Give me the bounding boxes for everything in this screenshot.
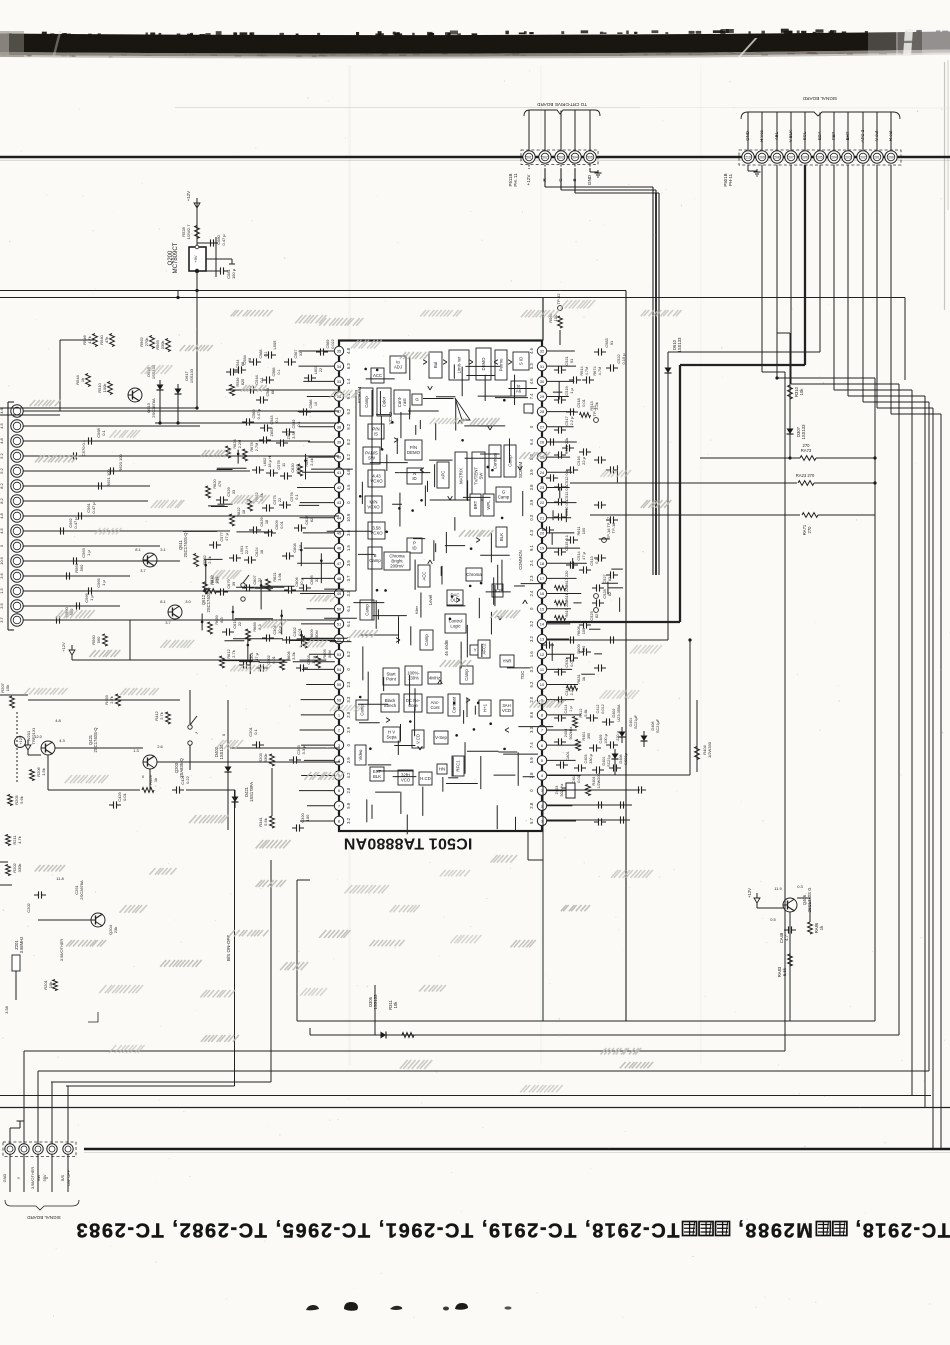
- svg-text:3.2: 3.2: [529, 620, 534, 626]
- svg-text:ACC: ACC: [373, 373, 382, 378]
- svg-text:3.58/OTHER: 3.58/OTHER: [59, 939, 64, 961]
- svg-text:1.4: 1.4: [346, 378, 351, 384]
- svg-text:5.2: 5.2: [0, 467, 4, 473]
- svg-text:R615 220: R615 220: [564, 600, 569, 618]
- svg-text:V BLK: V BLK: [788, 130, 793, 143]
- svg-text:68: 68: [271, 390, 275, 394]
- svg-text:4.7: 4.7: [784, 934, 789, 940]
- svg-text:PH. 11: PH. 11: [513, 173, 518, 187]
- svg-text:Camp: Camp: [369, 558, 381, 563]
- svg-text:204: 204: [831, 156, 837, 160]
- svg-text:4.3: 4.3: [59, 738, 65, 743]
- svg-text:203: 203: [845, 156, 851, 160]
- svg-text:C567: C567: [294, 349, 298, 358]
- svg-text:SIGNAL BOARD: SIGNAL BOARD: [802, 96, 837, 101]
- svg-text:5.6k: 5.6k: [584, 709, 588, 716]
- svg-text:100: 100: [581, 627, 586, 634]
- svg-text:0.3: 0.3: [529, 514, 534, 520]
- svg-text:54: 54: [337, 667, 342, 672]
- svg-text:3.9: 3.9: [529, 499, 534, 505]
- svg-text:6.4: 6.4: [529, 438, 534, 444]
- svg-text:3.3: 3.3: [529, 726, 534, 732]
- svg-text:1/2W200: 1/2W200: [597, 773, 601, 788]
- svg-text:53: 53: [337, 652, 342, 657]
- svg-text:3.7: 3.7: [165, 620, 171, 625]
- svg-text:UZ3.355A: UZ3.355A: [617, 704, 621, 722]
- svg-text:SCL: SCL: [802, 131, 807, 140]
- svg-text:5.6k: 5.6k: [782, 967, 787, 976]
- svg-text:2SC2878A: 2SC2878A: [79, 880, 84, 900]
- svg-text:22: 22: [540, 500, 545, 505]
- svg-text:rast: rast: [402, 398, 407, 406]
- svg-text:1.3: 1.3: [133, 748, 139, 753]
- svg-text:VCXO: VCXO: [367, 504, 380, 509]
- svg-text:3.9k: 3.9k: [277, 573, 282, 580]
- svg-text:R616 220: R616 220: [564, 585, 569, 603]
- svg-text:D408: D408: [651, 721, 655, 730]
- svg-text:10k: 10k: [799, 388, 804, 396]
- svg-text:2.2 μ: 2.2 μ: [569, 687, 574, 696]
- svg-text:+12V: +12V: [61, 642, 66, 652]
- svg-text:42: 42: [337, 485, 342, 490]
- svg-text:PH-11: PH-11: [728, 173, 733, 186]
- svg-text:DEMO: DEMO: [407, 450, 421, 455]
- svg-text:20: 20: [540, 531, 545, 536]
- svg-text:0.012: 0.012: [601, 704, 605, 714]
- svg-text:0.01: 0.01: [569, 659, 574, 667]
- svg-text:TP-18: TP-18: [611, 523, 616, 534]
- svg-text:18: 18: [264, 520, 269, 524]
- svg-text:6.1: 6.1: [346, 605, 351, 611]
- svg-text:52: 52: [337, 637, 342, 642]
- svg-text:47 μ: 47 μ: [581, 552, 586, 560]
- svg-text:V.CD: V.CD: [416, 734, 421, 744]
- svg-text:2.7k: 2.7k: [159, 712, 164, 720]
- svg-text:D401: D401: [602, 756, 606, 765]
- svg-text:C412: C412: [596, 704, 600, 713]
- svg-text:1.5: 1.5: [0, 587, 4, 593]
- svg-text:3.5: 3.5: [0, 602, 4, 608]
- svg-text:8.3: 8.3: [219, 617, 224, 622]
- svg-text:31: 31: [540, 364, 545, 369]
- svg-text:M2988,: M2988,: [737, 1219, 813, 1241]
- svg-text:VCD: VCD: [502, 708, 511, 713]
- svg-text:Strech: Strech: [384, 703, 397, 708]
- svg-text:502kHz: 502kHz: [569, 726, 573, 739]
- svg-text:2.2k: 2.2k: [207, 556, 212, 564]
- svg-text:8.2: 8.2: [346, 454, 351, 460]
- svg-text:29: 29: [540, 394, 545, 399]
- svg-text:16: 16: [540, 591, 545, 596]
- svg-text:Permu: Permu: [499, 358, 504, 371]
- svg-text:+12V: +12V: [526, 174, 531, 186]
- svg-text:VCO: VCO: [401, 777, 411, 782]
- svg-text:33: 33: [314, 578, 319, 582]
- svg-text:5.6k: 5.6k: [19, 796, 24, 804]
- svg-text:C544: C544: [236, 359, 240, 368]
- svg-text:C403: C403: [584, 754, 588, 763]
- svg-text:0.1: 0.1: [264, 351, 268, 356]
- svg-text:12: 12: [540, 652, 545, 657]
- svg-text:68: 68: [241, 362, 245, 366]
- svg-text:DEMO: DEMO: [481, 357, 486, 371]
- svg-text:560: 560: [79, 564, 84, 571]
- svg-text:Camp: Camp: [364, 396, 369, 408]
- svg-text:ABL: ABL: [774, 131, 779, 140]
- svg-text:8.1: 8.1: [160, 599, 166, 604]
- svg-text:BLK: BLK: [499, 533, 504, 541]
- svg-text:D402: D402: [612, 708, 616, 717]
- svg-text:↗: ↗: [194, 731, 199, 734]
- svg-text:22: 22: [237, 622, 242, 626]
- svg-text:10.9: 10.9: [346, 513, 351, 522]
- svg-text:82: 82: [607, 577, 612, 581]
- svg-text:SC21μ: SC21μ: [607, 755, 611, 767]
- svg-text:0.1: 0.1: [275, 417, 279, 422]
- svg-text:2403: 2403: [564, 729, 568, 737]
- svg-text:6.1: 6.1: [346, 620, 351, 626]
- svg-text:35: 35: [337, 349, 342, 354]
- svg-text:1 μ: 1 μ: [569, 706, 573, 711]
- svg-text:C409: C409: [599, 734, 603, 743]
- svg-text:46: 46: [337, 546, 342, 551]
- svg-text:8.1: 8.1: [135, 547, 141, 552]
- svg-text:C569: C569: [326, 339, 330, 348]
- svg-text:6.3: 6.3: [346, 363, 351, 369]
- svg-text:4.6: 4.6: [529, 378, 534, 384]
- svg-text:1k: 1k: [581, 677, 586, 681]
- svg-text:15: 15: [540, 606, 545, 611]
- svg-text:R617 220: R617 220: [564, 570, 569, 588]
- svg-text:1 μ: 1 μ: [89, 594, 94, 600]
- svg-text:50: 50: [337, 606, 342, 611]
- svg-text:RA23 270: RA23 270: [796, 473, 815, 478]
- svg-text:560: 560: [96, 636, 101, 643]
- svg-text:4.7M: 4.7M: [597, 367, 602, 376]
- svg-text:3.5: 3.5: [346, 560, 351, 566]
- svg-text:TC-2918,: TC-2918,: [854, 1219, 950, 1241]
- svg-text:0.47 μ: 0.47 μ: [91, 502, 96, 514]
- svg-text:11.9: 11.9: [774, 886, 782, 891]
- svg-text:C566: C566: [272, 367, 276, 376]
- svg-text:ACC: ACC: [422, 571, 427, 580]
- svg-text:SW: SW: [478, 472, 483, 480]
- svg-text:APC: APC: [441, 471, 446, 480]
- svg-text:11.8: 11.8: [56, 876, 64, 881]
- svg-text:2.8: 2.8: [346, 711, 351, 717]
- svg-text:18: 18: [241, 510, 246, 514]
- svg-text:330k: 330k: [263, 754, 268, 763]
- svg-text:TP-32: TP-32: [592, 405, 597, 417]
- svg-text:6.2: 6.2: [529, 681, 534, 687]
- svg-text:4.5: 4.5: [0, 422, 4, 428]
- svg-text:MATRIX: MATRIX: [459, 468, 464, 484]
- svg-text:1.5k: 1.5k: [41, 768, 46, 776]
- svg-text:22: 22: [319, 368, 323, 372]
- svg-text:1.5: 1.5: [346, 545, 351, 551]
- svg-text:3.9: 3.9: [529, 469, 534, 475]
- svg-text:Camp: Camp: [464, 669, 469, 681]
- svg-text:200mV: 200mV: [390, 563, 404, 568]
- svg-text:Kiler: Kiler: [414, 605, 419, 614]
- svg-text:3.2: 3.2: [529, 635, 534, 641]
- svg-text:5.2: 5.2: [346, 423, 351, 429]
- svg-text:Limit- ter: Limit- ter: [457, 356, 462, 373]
- svg-text:200: 200: [888, 156, 894, 160]
- svg-text:38: 38: [337, 424, 342, 429]
- svg-text:B/S: B/S: [60, 1174, 65, 1181]
- svg-text:208: 208: [774, 156, 780, 160]
- svg-text:C539: C539: [292, 419, 296, 428]
- svg-text:91: 91: [569, 359, 574, 363]
- svg-text:33: 33: [299, 352, 303, 356]
- svg-text:4.7M: 4.7M: [584, 367, 589, 376]
- svg-text:3.1: 3.1: [160, 547, 166, 552]
- svg-text:V-out: V-out: [874, 130, 879, 141]
- svg-text:1 μ: 1 μ: [101, 579, 106, 585]
- svg-text:C512 0.1: C512 0.1: [564, 470, 569, 486]
- svg-text:43: 43: [337, 500, 342, 505]
- svg-text:0.1: 0.1: [101, 429, 106, 435]
- svg-text:2.2 μ: 2.2 μ: [569, 417, 574, 426]
- svg-text:9.1: 9.1: [529, 545, 534, 551]
- svg-text:330k: 330k: [160, 341, 165, 350]
- svg-text:SW: SW: [36, 1175, 41, 1182]
- svg-text:Sepa: Sepa: [386, 734, 397, 739]
- svg-text:1SS133: 1SS133: [801, 424, 806, 440]
- svg-text:CA01: CA01: [566, 751, 570, 761]
- svg-text:ADJ: ADJ: [394, 364, 402, 369]
- svg-text:47 μ: 47 μ: [224, 533, 229, 541]
- svg-text:3.6: 3.6: [0, 572, 4, 578]
- svg-text:4.7k: 4.7k: [17, 836, 22, 844]
- svg-text:270: 270: [807, 526, 812, 534]
- svg-text:SC21μ: SC21μ: [624, 753, 628, 765]
- svg-text:22 H: 22 H: [244, 546, 249, 554]
- svg-text:100k: 100k: [102, 384, 107, 393]
- svg-text:18: 18: [540, 561, 545, 566]
- svg-text:GND: GND: [2, 1173, 7, 1182]
- svg-text:R539: R539: [236, 377, 240, 386]
- svg-text:R401: R401: [582, 731, 586, 740]
- svg-text:R620 100: R620 100: [118, 454, 123, 472]
- svg-text:1SS133: 1SS133: [189, 368, 194, 383]
- svg-text:3.2: 3.2: [346, 817, 351, 823]
- svg-text:11: 11: [281, 463, 286, 467]
- svg-text:R412: R412: [579, 708, 583, 717]
- svg-text:22 μ: 22 μ: [581, 457, 586, 465]
- svg-text:2.6: 2.6: [157, 744, 163, 749]
- svg-text:210: 210: [745, 156, 751, 160]
- svg-text:56: 56: [337, 697, 342, 702]
- svg-text:5.7: 5.7: [529, 817, 534, 823]
- svg-text:C202: C202: [26, 902, 31, 912]
- svg-text:8.2: 8.2: [0, 497, 4, 503]
- svg-text:C560: C560: [252, 409, 256, 418]
- svg-text:4.8: 4.8: [0, 437, 4, 443]
- svg-text:47: 47: [337, 561, 342, 566]
- svg-text:0.3: 0.3: [797, 884, 803, 889]
- svg-text:R404: R404: [592, 776, 596, 785]
- svg-text:330k: 330k: [17, 864, 22, 873]
- svg-text:0.1: 0.1: [253, 728, 258, 734]
- svg-text:2.0: 2.0: [529, 696, 534, 702]
- svg-text:270k: 270k: [144, 338, 149, 347]
- svg-text:100: 100: [581, 527, 586, 534]
- svg-text:C511 0.1: C511 0.1: [564, 485, 569, 501]
- svg-text:2SA835-Q: 2SA835-Q: [179, 757, 184, 777]
- svg-text:18 μ H: 18 μ H: [267, 456, 272, 468]
- svg-text:3.0: 3.0: [185, 599, 191, 604]
- svg-text:0.01: 0.01: [122, 792, 127, 801]
- svg-text:AFC-2: AFC-2: [860, 129, 865, 142]
- svg-text:1 μ: 1 μ: [86, 549, 91, 555]
- svg-text:10k: 10k: [393, 1001, 398, 1009]
- svg-text:3.3k: 3.3k: [291, 652, 296, 659]
- svg-text:49: 49: [337, 591, 342, 596]
- svg-text:TC-2918, TC-2919, TC-2961, TC-: TC-2918, TC-2919, TC-2961, TC-2965, TC-2…: [75, 1219, 680, 1241]
- svg-text:Y: Y: [474, 648, 477, 653]
- svg-text:1k: 1k: [80, 378, 85, 382]
- svg-text:82: 82: [594, 614, 599, 618]
- svg-text:0.5: 0.5: [770, 917, 776, 922]
- svg-text:Camp: Camp: [424, 634, 429, 646]
- svg-text:13: 13: [540, 637, 545, 642]
- svg-text:2.7M: 2.7M: [254, 443, 259, 452]
- svg-text:+12V: +12V: [747, 888, 752, 898]
- svg-text:SDA: SDA: [817, 131, 822, 140]
- svg-text:2SC1740S-Q: 2SC1740S-Q: [183, 532, 188, 558]
- svg-text:207: 207: [788, 156, 794, 160]
- svg-text:0.3: 0.3: [529, 666, 534, 672]
- svg-text:+9V: +9V: [193, 255, 198, 263]
- svg-text:D401: D401: [629, 717, 633, 726]
- svg-text:0.01: 0.01: [279, 521, 284, 529]
- svg-text:R621 100: R621 100: [106, 469, 111, 487]
- svg-text:Level: Level: [428, 595, 433, 606]
- svg-text:ID: ID: [412, 476, 416, 481]
- svg-text:47k: 47k: [104, 337, 109, 343]
- svg-text:BLK: BLK: [373, 774, 381, 779]
- svg-text:80M: 80M: [327, 650, 332, 658]
- svg-text:WPL: WPL: [486, 500, 491, 510]
- svg-text:51: 51: [337, 621, 342, 626]
- svg-text:0.1: 0.1: [277, 369, 281, 374]
- svg-text:4.3: 4.3: [529, 529, 534, 535]
- svg-text:/S: /S: [374, 431, 378, 436]
- svg-text:100 μ: 100 μ: [604, 734, 608, 744]
- svg-text:10: 10: [540, 682, 545, 687]
- svg-text:46 46dB: 46 46dB: [444, 640, 449, 656]
- svg-text:Z602: Z602: [269, 428, 274, 437]
- svg-text:Cont: Cont: [430, 705, 440, 710]
- svg-text:ID: ID: [412, 545, 416, 550]
- svg-text:5.6k: 5.6k: [263, 818, 268, 826]
- svg-text:10: 10: [314, 402, 318, 406]
- svg-text:8.6: 8.6: [529, 711, 534, 717]
- svg-text:2.8: 2.8: [346, 787, 351, 793]
- svg-text:14: 14: [540, 621, 545, 626]
- svg-text:26: 26: [540, 440, 545, 445]
- svg-text:1/2W330: 1/2W330: [707, 741, 712, 758]
- svg-text:IC501 TA8880AN: IC501 TA8880AN: [344, 835, 473, 852]
- svg-text:0.01: 0.01: [581, 399, 586, 407]
- svg-text:62: 62: [309, 518, 314, 522]
- svg-text:VCXD: VCXD: [388, 411, 393, 424]
- svg-text:390: 390: [587, 733, 591, 739]
- svg-text:100 μ: 100 μ: [231, 268, 236, 279]
- svg-text:4.8: 4.8: [346, 347, 351, 353]
- svg-text:820: 820: [241, 379, 245, 385]
- svg-text:2.3: 2.3: [346, 681, 351, 687]
- svg-text:Point: Point: [386, 676, 397, 681]
- svg-text:1k: 1k: [153, 778, 158, 782]
- svg-text:2.9: 2.9: [346, 757, 351, 763]
- svg-text:C402: C402: [572, 774, 576, 783]
- svg-text:4.2: 4.2: [346, 772, 351, 778]
- svg-text:3.8: 3.8: [529, 484, 534, 490]
- svg-text:23k: 23k: [113, 927, 118, 933]
- svg-text:48: 48: [337, 576, 342, 581]
- svg-text:TDC: TDC: [520, 671, 525, 680]
- svg-text:Bal: Bal: [433, 362, 438, 368]
- svg-text:8.2: 8.2: [0, 482, 4, 488]
- svg-text:100: 100: [305, 814, 310, 821]
- svg-text:5.9: 5.9: [529, 757, 534, 763]
- svg-text:68: 68: [247, 357, 252, 362]
- svg-text:3.7: 3.7: [346, 575, 351, 581]
- svg-text:27: 27: [540, 424, 545, 429]
- svg-text:0.1: 0.1: [297, 421, 301, 426]
- svg-text:COMMON: COMMON: [518, 550, 523, 570]
- svg-text:270: 270: [803, 443, 811, 448]
- svg-text:32: 32: [540, 349, 545, 354]
- svg-text:1SS178FA: 1SS178FA: [249, 782, 254, 802]
- svg-text:1SS133: 1SS133: [677, 337, 682, 353]
- svg-text:23: 23: [540, 485, 545, 490]
- svg-text:2.4: 2.4: [529, 560, 534, 566]
- svg-text:2.3: 2.3: [529, 575, 534, 581]
- svg-text:39: 39: [231, 582, 236, 586]
- svg-text:C568: C568: [259, 349, 263, 358]
- svg-text:10.9: 10.9: [0, 556, 4, 565]
- svg-text:4.5: 4.5: [346, 484, 351, 490]
- svg-text:202: 202: [860, 156, 866, 160]
- svg-text:4MHz: 4MHz: [429, 676, 440, 681]
- svg-text:MC7809CT: MC7809CT: [173, 242, 179, 273]
- svg-text:470: 470: [217, 480, 222, 487]
- svg-text:SIGNAL BOARD: SIGNAL BOARD: [26, 1215, 60, 1220]
- svg-text:15k: 15k: [5, 685, 10, 691]
- svg-text:4.8: 4.8: [55, 718, 61, 723]
- svg-text:4.5: 4.5: [0, 527, 4, 533]
- svg-text:3.3: 3.3: [346, 696, 351, 702]
- svg-text:0.47 μ: 0.47 μ: [73, 517, 78, 529]
- svg-text:0.47 μ: 0.47 μ: [257, 409, 261, 420]
- svg-text:4.8: 4.8: [346, 469, 351, 475]
- svg-text:Chroma: Chroma: [466, 572, 482, 577]
- svg-text:EHT: EHT: [845, 131, 850, 140]
- svg-text:91: 91: [609, 341, 614, 345]
- svg-text:33: 33: [231, 490, 236, 494]
- svg-text:2.4k: 2.4k: [309, 458, 314, 465]
- svg-text:18: 18: [259, 550, 264, 554]
- svg-text:C564: C564: [266, 387, 270, 396]
- svg-text:37: 37: [337, 409, 342, 414]
- svg-text:TRF2131: TRF2131: [31, 727, 36, 744]
- svg-text:TO CRT-DRIVE BOARD: TO CRT-DRIVE BOARD: [536, 102, 587, 107]
- svg-text:5.2: 5.2: [0, 452, 4, 458]
